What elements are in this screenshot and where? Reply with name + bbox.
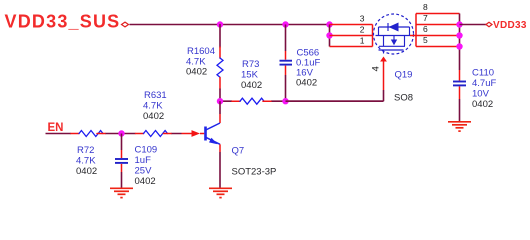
svg-text:0402: 0402 — [135, 176, 156, 187]
svg-text:4.7uF: 4.7uF — [472, 78, 496, 89]
emitter diagonal — [206, 137, 220, 144]
svg-text:8: 8 — [423, 2, 428, 12]
junction node/C566 — [282, 98, 288, 104]
pin 4 of Q19 (gate) — [286, 57, 387, 102]
svg-text:1uF: 1uF — [135, 155, 152, 166]
svg-text:C110: C110 — [472, 68, 494, 79]
ground (C110) — [448, 122, 471, 131]
pin 1 of Q19 — [330, 46, 373, 48]
off-page connector diamond VDD33_SUS — [122, 22, 129, 27]
svg-text:SO8: SO8 — [394, 93, 413, 104]
junction bus/pin7/out — [456, 21, 462, 27]
svg-text:25V: 25V — [135, 166, 153, 177]
svg-text:0402: 0402 — [186, 67, 207, 78]
svg-text:R73: R73 — [242, 59, 259, 70]
capacitor C110 (vertical) — [453, 70, 466, 122]
MOSFET Q19 symbol body — [374, 14, 414, 54]
svg-text:4.7K: 4.7K — [76, 156, 96, 167]
ground (C109) — [110, 188, 133, 197]
gate bar — [379, 49, 404, 51]
svg-text:4: 4 — [371, 66, 382, 71]
base pin arrow — [182, 133, 192, 135]
svg-text:0402: 0402 — [241, 80, 262, 91]
svg-text:Q7: Q7 — [232, 146, 245, 157]
svg-text:VDD33: VDD33 — [493, 20, 527, 31]
pin 2 of Q19 — [330, 35, 373, 37]
svg-text:0402: 0402 — [76, 166, 97, 177]
pin 6 of Q19 — [416, 35, 460, 37]
pin 8 of Q19 — [416, 13, 460, 15]
resistor R1604 (vertical) — [217, 25, 223, 102]
dashed package circle — [374, 14, 414, 54]
junction bus/pin6 — [456, 32, 462, 38]
svg-text:6: 6 — [423, 24, 428, 34]
ground (Q7) — [209, 188, 232, 197]
svg-text:R631: R631 — [144, 90, 167, 101]
Q19 right symbol edge bar — [415, 14, 417, 47]
svg-text:0402: 0402 — [296, 78, 317, 89]
wire right bus VDD33 — [459, 14, 461, 71]
junction bus/pin5 — [456, 43, 462, 49]
source contact — [383, 36, 385, 47]
emitter wire — [219, 144, 221, 152]
svg-text:15K: 15K — [241, 70, 259, 81]
body arrow — [391, 40, 397, 46]
junction rail/R1604 — [217, 21, 223, 27]
collector diagonal — [206, 123, 220, 130]
junction rail/Q19 pin bus — [326, 21, 332, 27]
wire node row (gate net) — [220, 100, 384, 102]
svg-text:2: 2 — [360, 25, 365, 35]
pin 5 of Q19 — [416, 46, 460, 48]
svg-text:0402: 0402 — [143, 111, 164, 122]
svg-text:C109: C109 — [135, 145, 158, 156]
collector wire — [219, 101, 221, 114]
wire Q19 left pin bus — [329, 25, 331, 47]
svg-text:1: 1 — [360, 36, 365, 46]
transistor Q7 (NPN) — [182, 101, 221, 187]
resistor R631 (horizontal) — [136, 131, 172, 137]
body diode triangle — [389, 23, 399, 32]
svg-text:R72: R72 — [77, 145, 94, 156]
body stub — [393, 36, 395, 40]
diode side verticals — [379, 27, 410, 36]
wire EN row — [46, 133, 182, 135]
resistor R72 (horizontal) — [71, 131, 105, 137]
channel line — [379, 45, 405, 47]
wire top rail VDD33_SUS — [130, 24, 330, 26]
drain link to edge bar — [410, 35, 416, 37]
gate stub — [383, 50, 385, 54]
resistor R73 (horizontal) — [232, 98, 271, 104]
pin 7 of Q19 — [416, 24, 460, 26]
source/drain row — [376, 35, 411, 37]
svg-text:0402: 0402 — [472, 99, 493, 110]
svg-text:4.7K: 4.7K — [143, 101, 163, 112]
junction pin bus / pin 2 — [326, 32, 332, 38]
body diode row — [379, 26, 410, 28]
svg-text:5: 5 — [423, 35, 428, 45]
svg-text:EN: EN — [48, 122, 64, 134]
junction node/R1604/Q7 — [217, 98, 223, 104]
emitter arrow — [209, 138, 218, 145]
svg-text:10V: 10V — [472, 89, 490, 100]
off-page connector diamond VDD33 — [486, 22, 492, 26]
svg-text:VDD33_SUS: VDD33_SUS — [5, 12, 121, 32]
capacitor C109 (vertical) — [115, 134, 128, 188]
svg-text:R1604: R1604 — [187, 46, 215, 57]
wire to VDD33 connector — [460, 24, 487, 26]
base bar — [204, 127, 207, 141]
svg-text:7: 7 — [423, 13, 428, 23]
Q19 left symbol edge bar — [372, 25, 374, 47]
svg-text:3: 3 — [360, 14, 365, 24]
body diode cathode bar — [387, 23, 389, 31]
capacitor C566 (vertical) — [280, 25, 293, 102]
drain contact — [404, 36, 406, 47]
pin 3 of Q19 — [330, 24, 373, 26]
svg-text:SOT23-3P: SOT23-3P — [232, 167, 277, 178]
junction rail/C566 — [282, 21, 288, 27]
junction EN/C109 — [118, 130, 124, 136]
svg-text:Q19: Q19 — [395, 70, 413, 81]
